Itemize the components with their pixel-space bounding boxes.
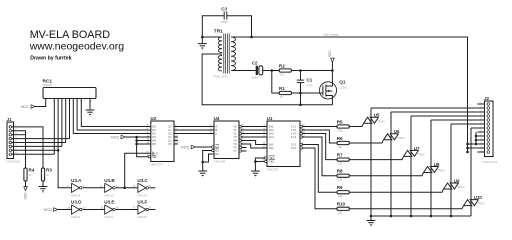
svg-text:TRIAC: TRIAC bbox=[417, 152, 425, 156]
svg-text:R6: R6 bbox=[337, 136, 343, 141]
wire U4 Y2 to U1 1A3 bbox=[241, 133, 267, 135]
ic U2 74HC174 bbox=[151, 121, 174, 162]
wire J2 pin12 row bbox=[468, 147, 478, 149]
ground below R3 bbox=[42, 181, 44, 187]
connector J2 bbox=[485, 101, 494, 157]
junction R2/C1 bbox=[299, 69, 302, 72]
wire triac common bus bbox=[371, 215, 471, 217]
wire R6 to U6 gate bbox=[349, 140, 383, 143]
svg-text:2Y2: 2Y2 bbox=[291, 146, 296, 150]
svg-text:VCC: VCC bbox=[111, 135, 120, 140]
inverter U3.B bbox=[105, 183, 113, 192]
wire J2 pin1 stub bbox=[477, 103, 484, 105]
wire J1 pin6 bbox=[12, 145, 62, 147]
wire TR1 primary top lead bbox=[202, 36, 222, 38]
svg-text:R4: R4 bbox=[29, 168, 35, 173]
svg-text:100nF: 100nF bbox=[221, 20, 229, 24]
svg-text:R2: R2 bbox=[279, 63, 285, 68]
svg-text:C: C bbox=[215, 132, 217, 136]
wire TR1 secondary bottom to C2 bbox=[231, 70, 256, 72]
wire U4 Y6 stub bbox=[241, 147, 246, 149]
svg-text:100uF: 100uF bbox=[251, 76, 259, 80]
wire U4 E2 to ground bbox=[203, 151, 212, 172]
ground U4 enables bbox=[198, 170, 207, 172]
triac U9 bbox=[444, 183, 452, 189]
svg-text:U4: U4 bbox=[214, 116, 220, 121]
wire RC1 pin7 to U2 D2 bbox=[73, 99, 151, 134]
power VCC to U3.D bbox=[54, 208, 58, 212]
svg-text:VCC: VCC bbox=[44, 207, 53, 212]
wire J1 pin1 to R3 bbox=[12, 127, 43, 168]
svg-text:CRE401: CRE401 bbox=[43, 83, 54, 87]
power VCC above Q1 bbox=[331, 58, 335, 62]
wire high voltage bbox=[252, 37, 468, 152]
wire U1 1Y4 to R8 bbox=[302, 137, 337, 176]
svg-text:VCC: VCC bbox=[23, 193, 27, 201]
wire U9 main vertical bbox=[450, 124, 452, 216]
svg-text:R9: R9 bbox=[337, 185, 343, 190]
wire R5 to U5 gate bbox=[349, 123, 363, 126]
junction bus bbox=[390, 215, 393, 218]
triac U8 bbox=[424, 167, 432, 173]
wire J1 pin7 bbox=[12, 149, 59, 151]
wire RC1 pin2 vertical bbox=[53, 99, 55, 155]
svg-text:VCC: VCC bbox=[181, 145, 190, 150]
bubble U1 OE1 bbox=[265, 157, 267, 159]
svg-text:100: 100 bbox=[338, 178, 343, 182]
svg-text:74HC14: 74HC14 bbox=[104, 193, 114, 197]
wire RC1 pin3 vertical to U3.A input bbox=[58, 99, 71, 188]
svg-text:74HC138: 74HC138 bbox=[214, 160, 226, 164]
wire J2 pin8 stub bbox=[477, 131, 484, 133]
svg-text:TRIAC: TRIAC bbox=[457, 185, 465, 189]
power VCC to U4 E1 bbox=[191, 145, 195, 149]
wire R1 to gate bbox=[292, 92, 323, 94]
bubble U4 E1 bbox=[212, 146, 214, 148]
svg-text:74HC14: 74HC14 bbox=[137, 215, 147, 219]
wire RC1 pin5 vertical bbox=[65, 99, 67, 143]
triac U6 bbox=[384, 134, 392, 140]
transistor Q1 bbox=[319, 82, 336, 99]
junction VCC/D4 bbox=[135, 139, 138, 142]
svg-text:VCC: VCC bbox=[21, 104, 30, 109]
junction VCC/D3 bbox=[135, 136, 138, 139]
wire J2 pin9 stub bbox=[477, 135, 484, 137]
svg-text:CONN SIL8: CONN SIL8 bbox=[6, 159, 20, 163]
wire RC1 pin9 to U2 D0 bbox=[81, 99, 151, 127]
wire J2 pin11 row bbox=[468, 143, 478, 145]
junction bus bbox=[410, 215, 413, 218]
svg-text:CONN SIL13: CONN SIL13 bbox=[482, 160, 498, 164]
svg-text:74HC174: 74HC174 bbox=[150, 163, 162, 167]
wire J2 pin5 stub bbox=[477, 119, 484, 121]
svg-text:U2: U2 bbox=[150, 116, 156, 121]
svg-text:U3.E: U3.E bbox=[104, 200, 114, 205]
wire J1 pin5 bbox=[12, 142, 66, 144]
wire J2 pin10 stub bbox=[477, 139, 484, 141]
wire R9 to U9 gate bbox=[349, 189, 443, 192]
wire J1 pin2 to R4 net bbox=[12, 131, 26, 168]
wire U1 1Y1 to R5 bbox=[302, 126, 337, 128]
wire U8 main vertical bbox=[430, 120, 432, 216]
wire TR1 secondary top lead to HV bbox=[231, 36, 252, 38]
bubble U4 E2 bbox=[212, 149, 214, 151]
wire U2 Q4 stub bbox=[174, 140, 178, 142]
svg-text:TRAN_2P3S: TRAN_2P3S bbox=[213, 75, 228, 79]
ground U1 OE bbox=[251, 170, 260, 172]
wire U2 Q2 to U4 C bbox=[174, 133, 214, 135]
wire U4 Y0 to U1 1A1 bbox=[241, 126, 267, 128]
svg-text:Y7: Y7 bbox=[233, 149, 237, 153]
wire U2 Q1 to U4 B bbox=[174, 129, 214, 131]
svg-text:74HC14: 74HC14 bbox=[104, 215, 114, 219]
wire R7 to U7 gate bbox=[349, 156, 403, 159]
wire U7 main vertical bbox=[410, 116, 412, 216]
wire J2 pin12 stub bbox=[477, 147, 484, 149]
wire U10 main vertical bbox=[470, 128, 472, 216]
wire U3.E out to U3.F in bbox=[116, 209, 138, 211]
svg-text:100: 100 bbox=[338, 145, 343, 149]
capacitor C3 bbox=[202, 16, 224, 37]
svg-text:high voltage: high voltage bbox=[324, 32, 340, 36]
wire U3.D out to U3.E in bbox=[83, 209, 105, 211]
resistor R6 bbox=[337, 141, 349, 144]
inverter U3.F bbox=[138, 205, 146, 214]
ground triac bus bbox=[370, 215, 373, 218]
resistor R7 bbox=[337, 158, 349, 161]
wire TR1 primary tap to source rail bbox=[202, 54, 332, 105]
svg-text:U3.A: U3.A bbox=[71, 178, 82, 183]
wire U4 Y3 to U1 1A4 bbox=[241, 136, 267, 138]
wire VCC net vertical bbox=[137, 137, 150, 157]
wire U2 Q3 stub bbox=[174, 136, 178, 138]
capacitor C1 bbox=[300, 71, 302, 81]
svg-text:74HC240: 74HC240 bbox=[267, 168, 279, 172]
svg-text:R1: R1 bbox=[279, 86, 285, 91]
wire U5 main vertical bbox=[370, 108, 372, 216]
resistor R8 bbox=[337, 174, 349, 177]
wire U4 E3 to ground bbox=[203, 154, 214, 162]
wire VCC net to D3 bbox=[125, 136, 151, 138]
wire J2 pin2 stub bbox=[477, 107, 484, 109]
wire U1 2Y1 to R9 bbox=[302, 145, 337, 193]
wire RC1 pin8 to U2 D1 bbox=[77, 99, 151, 131]
triac U7 bbox=[404, 150, 412, 156]
svg-text:www.neogeodev.org: www.neogeodev.org bbox=[29, 40, 125, 52]
wire J2 pin6 stub bbox=[477, 123, 484, 125]
svg-text:TRIAC: TRIAC bbox=[377, 119, 385, 123]
wire VCC to RC1 pin1 bbox=[35, 99, 46, 107]
inverter U3.A bbox=[72, 183, 80, 192]
svg-text:OE2: OE2 bbox=[269, 160, 275, 164]
junction HV/J2 pin12 bbox=[466, 147, 469, 150]
power VCC below R4 bbox=[25, 181, 27, 187]
junction VCC/drain bbox=[331, 69, 334, 72]
wire J1 pin3 to R4 net bbox=[12, 134, 26, 136]
junction HV/J2 pin11 bbox=[466, 143, 469, 146]
triac U10 bbox=[464, 200, 472, 206]
power VCC to U2 D3 D4 D5 MR bbox=[121, 135, 125, 139]
ground RC1 pin 10 bbox=[89, 99, 91, 111]
wire J2 pins 8-10 bracket bbox=[475, 132, 477, 144]
wire J2 feed to U5 bbox=[371, 107, 477, 109]
junction VCC/D5 bbox=[135, 143, 138, 146]
wire R10 to U10 gate bbox=[349, 206, 463, 209]
svg-text:100: 100 bbox=[338, 194, 343, 198]
svg-text:U9: U9 bbox=[454, 178, 460, 183]
svg-text:1Y4: 1Y4 bbox=[291, 135, 296, 139]
svg-text:D5: D5 bbox=[152, 142, 156, 146]
resistor R9 bbox=[337, 191, 349, 194]
wire RC1 pin6 vertical bbox=[69, 99, 71, 139]
inverter U3.D bbox=[72, 205, 80, 214]
junction source rail bbox=[299, 104, 302, 107]
svg-text:100: 100 bbox=[338, 211, 343, 215]
junction C2/R2/R1 bbox=[271, 69, 274, 72]
wire node down to R1 bbox=[272, 71, 279, 94]
ic U4 74HC138 bbox=[214, 121, 239, 159]
svg-text:Drawn by furrtek: Drawn by furrtek bbox=[30, 56, 71, 62]
resistor R10 bbox=[337, 207, 349, 210]
svg-text:U7: U7 bbox=[414, 146, 420, 151]
svg-text:74HC14: 74HC14 bbox=[137, 193, 147, 197]
wire U1 OE1 to ground bbox=[255, 158, 264, 171]
svg-text:U1: U1 bbox=[267, 116, 273, 121]
svg-text:2A2: 2A2 bbox=[269, 146, 274, 150]
wire J1 pin4 bbox=[12, 138, 70, 140]
junction CLK tap bbox=[123, 187, 126, 190]
svg-text:R7: R7 bbox=[337, 152, 343, 157]
resistor R3 bbox=[41, 168, 44, 181]
resistor R1 bbox=[279, 91, 291, 94]
svg-text:E3: E3 bbox=[215, 152, 219, 156]
junction TR1 top-left bbox=[201, 36, 204, 39]
wire J2 feed to U10 bbox=[471, 127, 477, 129]
svg-text:U3.F: U3.F bbox=[137, 200, 147, 205]
svg-text:R10: R10 bbox=[337, 202, 346, 207]
svg-text:J2: J2 bbox=[484, 96, 490, 101]
svg-text:U8: U8 bbox=[434, 162, 440, 167]
svg-text:TRIAC: TRIAC bbox=[397, 136, 405, 140]
resistor R5 bbox=[337, 125, 349, 128]
svg-text:100: 100 bbox=[338, 162, 343, 166]
junction HV/J2 pin13 bbox=[466, 151, 469, 154]
svg-text:R3: R3 bbox=[46, 168, 52, 173]
wire U3.C output stub bbox=[149, 187, 155, 189]
junction E3/gnd bbox=[201, 161, 204, 164]
wire J2 pin7 stub bbox=[477, 127, 484, 129]
connector J1 bbox=[7, 122, 14, 159]
svg-text:U6: U6 bbox=[394, 129, 400, 134]
svg-text:TRIAC: TRIAC bbox=[477, 202, 485, 206]
wire VCC to U3.D in bbox=[58, 209, 72, 211]
svg-text:74HC14: 74HC14 bbox=[71, 193, 81, 197]
wire U3.F output stub bbox=[149, 209, 155, 211]
wire U1 OE2 to ground bbox=[255, 161, 264, 163]
svg-text:100: 100 bbox=[338, 128, 343, 132]
svg-text:47nF: 47nF bbox=[307, 83, 313, 87]
svg-text:74HC14: 74HC14 bbox=[71, 215, 81, 219]
wire U1 1Y3 to R7 bbox=[302, 134, 337, 160]
svg-text:VCC: VCC bbox=[328, 50, 332, 57]
svg-text:Q1: Q1 bbox=[339, 80, 346, 85]
svg-text:C1: C1 bbox=[307, 78, 313, 83]
junction bus bbox=[430, 215, 433, 218]
svg-text:U3.B: U3.B bbox=[104, 178, 115, 183]
wire U4 Y4 to U1 2A1 bbox=[241, 141, 267, 145]
wire J2 pin11 stub bbox=[477, 143, 484, 145]
wire J2 pin3 stub bbox=[477, 111, 484, 113]
junction OE2/gnd bbox=[254, 160, 257, 163]
ic U1 74HC240 bbox=[267, 121, 300, 167]
wire U2 CLK from U3.B output bbox=[125, 153, 151, 188]
wire U3.B out to U3.C in bbox=[116, 187, 138, 189]
resistor R2 bbox=[279, 69, 291, 72]
wire J2 feed to U7 bbox=[411, 115, 477, 117]
wire U6 main vertical bbox=[390, 112, 392, 216]
wire J2 feed to U6 bbox=[391, 111, 477, 113]
wire J2 feed to U8 bbox=[431, 119, 477, 121]
bubble U1 OE2 bbox=[265, 160, 267, 162]
svg-text:U3.C: U3.C bbox=[137, 178, 148, 183]
wire C2 to node bbox=[263, 70, 272, 72]
resistor R4 bbox=[24, 168, 27, 181]
bubble U2 MR bbox=[148, 156, 150, 158]
svg-text:1A4: 1A4 bbox=[269, 135, 274, 139]
svg-text:R8: R8 bbox=[337, 169, 343, 174]
svg-text:J1: J1 bbox=[7, 117, 13, 122]
svg-text:22: 22 bbox=[280, 95, 283, 99]
triac U5 bbox=[364, 117, 372, 123]
junction bus bbox=[450, 215, 453, 218]
wire R8 to U8 gate bbox=[349, 173, 423, 176]
capacitor C2 bbox=[256, 66, 258, 75]
wire U4 Y5 to U1 2A2 bbox=[241, 144, 267, 148]
svg-text:U5: U5 bbox=[374, 113, 380, 118]
svg-text:TR1: TR1 bbox=[214, 29, 223, 35]
junction R1/C1 bbox=[299, 92, 302, 95]
wire node to R2 bbox=[272, 70, 279, 72]
wire RC1 pin4 vertical bbox=[61, 99, 63, 147]
wire U1 2Y2 to R10 bbox=[302, 148, 337, 209]
wire U4 Y7 stub bbox=[241, 150, 246, 152]
resistor network RC1 bbox=[43, 88, 96, 99]
wire J2 pin4 stub bbox=[477, 115, 484, 117]
svg-text:R5: R5 bbox=[337, 119, 343, 124]
wire U1 1Y2 to R6 bbox=[302, 130, 337, 143]
wire U2 Q0 to U4 A bbox=[174, 126, 214, 128]
svg-text:C2: C2 bbox=[252, 61, 258, 66]
svg-text:C2516: C2516 bbox=[339, 85, 347, 89]
svg-text:TRIAC: TRIAC bbox=[437, 169, 445, 173]
svg-text:U3.D: U3.D bbox=[71, 200, 82, 205]
wire D5 stub bbox=[137, 143, 151, 145]
wire J2 pin13 stub bbox=[477, 151, 484, 153]
svg-text:Q5: Q5 bbox=[168, 142, 172, 146]
svg-text:C3: C3 bbox=[221, 7, 227, 12]
junction pin7/RC1 bbox=[57, 149, 60, 152]
wire J1 pin8 bbox=[12, 153, 55, 155]
svg-text:U10: U10 bbox=[474, 195, 483, 200]
wire U4 Y1 to U1 1A2 bbox=[241, 129, 267, 131]
inverter U3.C bbox=[138, 183, 146, 192]
svg-text:220: 220 bbox=[280, 72, 285, 76]
wire R2 to drain node bbox=[292, 70, 333, 72]
svg-text:MV-ELA BOARD: MV-ELA BOARD bbox=[30, 29, 111, 41]
junction TR1 top-right bbox=[250, 36, 253, 39]
ground TR1 primary bbox=[201, 37, 203, 44]
wire D4 stub bbox=[137, 140, 151, 142]
wire U2 Q5 stub bbox=[174, 143, 178, 145]
wire J2 feed to U9 bbox=[451, 123, 477, 125]
wire U3.A out to U3.B in bbox=[83, 187, 105, 189]
inverter U3.E bbox=[105, 205, 113, 214]
power VCC (to RC1 pin 1) bbox=[31, 105, 35, 109]
